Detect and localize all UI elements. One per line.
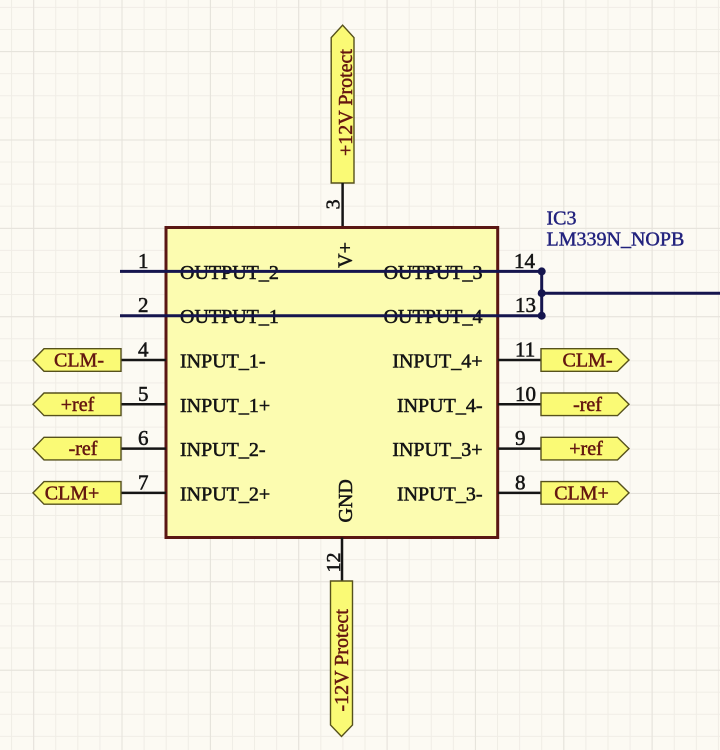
port +ref left	[33, 393, 121, 416]
pin 10 stub	[498, 403, 542, 406]
svg-text:2: 2	[138, 293, 149, 317]
svg-text:7: 7	[138, 470, 149, 494]
junction pin13	[538, 312, 546, 320]
svg-text:IC3: IC3	[547, 208, 577, 230]
junction pin14	[538, 267, 546, 275]
svg-text:+ref: +ref	[569, 438, 603, 460]
pin 9 stub	[498, 447, 542, 450]
svg-text:-12V Protect: -12V Protect	[331, 609, 353, 712]
wire vertical bus join	[540, 271, 543, 315]
junction middle	[538, 289, 546, 297]
svg-text:-ref: -ref	[69, 438, 98, 460]
wire pin12 to -12V Protect	[341, 538, 344, 582]
svg-text:V+: V+	[334, 242, 356, 268]
svg-text:+ref: +ref	[61, 394, 95, 416]
svg-text:11: 11	[515, 338, 535, 362]
pin 5 stub	[121, 403, 166, 406]
svg-text:6: 6	[138, 426, 149, 450]
port -ref right	[541, 393, 629, 416]
svg-text:9: 9	[515, 426, 526, 450]
op-amp IC3 body	[166, 228, 498, 538]
svg-text:CLM+: CLM+	[554, 482, 609, 504]
svg-text:CLM+: CLM+	[45, 482, 100, 504]
pin 4 stub	[121, 359, 166, 362]
svg-text:-ref: -ref	[573, 394, 602, 416]
svg-text:INPUT_3-: INPUT_3-	[397, 483, 483, 505]
svg-text:14: 14	[514, 249, 536, 273]
svg-text:INPUT_4-: INPUT_4-	[397, 395, 483, 417]
wire pin3 to +12V Protect	[341, 183, 344, 227]
svg-text:INPUT_1-: INPUT_1-	[180, 351, 266, 373]
svg-text:INPUT_4+: INPUT_4+	[392, 351, 482, 373]
svg-text:+12V Protect: +12V Protect	[335, 49, 357, 156]
port CLM- right	[541, 349, 629, 372]
port -12V Protect	[331, 581, 353, 737]
svg-text:INPUT_3+: INPUT_3+	[392, 439, 482, 461]
wire net OUTPUT_2 row	[120, 270, 542, 273]
left pin numbers	[138, 249, 149, 495]
right pin names	[384, 262, 483, 506]
pin 8 stub	[498, 492, 542, 495]
svg-text:12: 12	[323, 553, 345, 573]
svg-text:INPUT_1+: INPUT_1+	[180, 395, 270, 417]
svg-text:5: 5	[138, 382, 149, 406]
svg-text:8: 8	[515, 470, 526, 494]
wire to right edge	[542, 292, 720, 295]
port CLM+ left	[33, 482, 121, 505]
svg-text:10: 10	[515, 382, 536, 406]
svg-text:13: 13	[515, 293, 536, 317]
svg-text:INPUT_2-: INPUT_2-	[180, 439, 266, 461]
svg-text:INPUT_2+: INPUT_2+	[180, 483, 270, 505]
port +ref right	[541, 437, 629, 460]
svg-text:LM339N_NOPB: LM339N_NOPB	[547, 229, 685, 251]
svg-text:CLM-: CLM-	[54, 350, 104, 372]
right pin numbers	[514, 249, 536, 495]
wire net OUTPUT_1 row	[120, 314, 542, 317]
svg-text:3: 3	[323, 199, 345, 209]
svg-text:GND: GND	[335, 479, 357, 522]
svg-text:4: 4	[138, 338, 149, 362]
port CLM- left	[33, 349, 121, 372]
port +12V Protect	[331, 25, 357, 183]
pin 7 stub	[121, 492, 166, 495]
svg-text:1: 1	[138, 249, 149, 273]
left pin names	[180, 262, 279, 506]
pin 11 stub	[498, 359, 542, 362]
port -ref left	[33, 437, 121, 460]
port CLM+ right	[541, 482, 629, 505]
svg-text:CLM-: CLM-	[563, 350, 613, 372]
pin 6 stub	[121, 447, 166, 450]
